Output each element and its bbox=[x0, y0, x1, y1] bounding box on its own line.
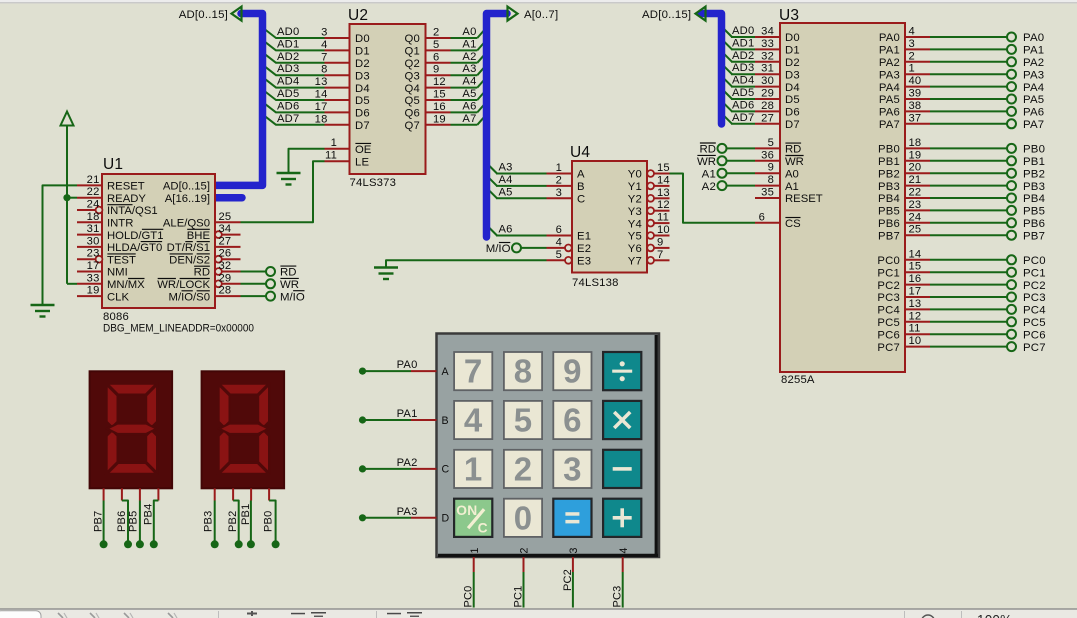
U3 pin 30 D4 bbox=[755, 75, 800, 94]
wire A2 terminal to U3 bbox=[727, 185, 756, 187]
U4 pin 12 Y3 bbox=[628, 199, 670, 218]
svg-text:18: 18 bbox=[87, 211, 100, 223]
net label AD5 (left of U3) bbox=[732, 87, 754, 99]
net label PC3 bbox=[612, 586, 624, 608]
svg-text:18: 18 bbox=[909, 137, 922, 149]
svg-text:D0: D0 bbox=[785, 32, 800, 44]
svg-text:33: 33 bbox=[761, 38, 774, 50]
designator U4 bbox=[570, 144, 590, 161]
svg-text:13: 13 bbox=[315, 76, 328, 88]
svg-text:16: 16 bbox=[909, 273, 922, 285]
U2 pin 17 D6 bbox=[315, 101, 370, 120]
wire+terminal PC7 bbox=[930, 342, 1046, 354]
svg-text:PC0: PC0 bbox=[463, 586, 475, 608]
wire U1.RESET to ground bbox=[43, 185, 78, 304]
U3 pin 19 PB1 bbox=[878, 149, 930, 168]
svg-text:9: 9 bbox=[768, 162, 774, 174]
svg-text:PB1: PB1 bbox=[878, 156, 900, 168]
svg-text:LE: LE bbox=[355, 156, 369, 168]
keypad key 4 bbox=[454, 401, 492, 439]
svg-text:17: 17 bbox=[87, 260, 100, 272]
U3 pin 18 PB0 bbox=[878, 137, 930, 156]
svg-text:AD[0..15]: AD[0..15] bbox=[642, 9, 691, 21]
wire AD5 bus entry + net to U2.D5 bbox=[263, 90, 325, 101]
svg-text:8: 8 bbox=[321, 64, 327, 76]
U1 pin 22 READY bbox=[77, 186, 146, 205]
svg-text:PA7: PA7 bbox=[1023, 119, 1044, 131]
wire+terminal PA2 bbox=[930, 57, 1044, 69]
svg-text:PC4: PC4 bbox=[877, 305, 900, 317]
svg-text:6: 6 bbox=[433, 51, 439, 63]
svg-text:NMI: NMI bbox=[107, 267, 128, 279]
U1 pin 25 ALE/QS0 bbox=[163, 211, 241, 230]
svg-text:2: 2 bbox=[556, 174, 562, 186]
wire AD2 bus entry + net to U3.D2 bbox=[722, 51, 756, 62]
U4 pin 14 Y1 bbox=[628, 174, 670, 193]
net label PA0 bbox=[397, 359, 418, 371]
net label PA3 bbox=[397, 506, 418, 518]
svg-text:6: 6 bbox=[556, 224, 562, 236]
net label AD[0..15] top-left bbox=[179, 9, 228, 21]
svg-text:26: 26 bbox=[219, 248, 232, 260]
svg-text:PC0: PC0 bbox=[877, 255, 900, 267]
keypad key 0 bbox=[504, 499, 542, 537]
svg-text:RESET: RESET bbox=[785, 193, 823, 205]
keypad key 8 bbox=[504, 352, 542, 390]
wire+terminal PC2 bbox=[930, 280, 1046, 292]
U1 pin 28 M/IO/S0 bbox=[169, 285, 241, 304]
svg-text:A2: A2 bbox=[702, 181, 716, 193]
svg-text:E1: E1 bbox=[577, 231, 591, 243]
keypad column label 3 bbox=[568, 548, 580, 554]
svg-text:D1: D1 bbox=[785, 45, 800, 57]
svg-text:CLK: CLK bbox=[107, 291, 129, 303]
svg-text:AD4: AD4 bbox=[277, 76, 299, 88]
wire AD5 bus entry + net to U3.D5 bbox=[722, 89, 756, 100]
svg-text:PA4: PA4 bbox=[1023, 82, 1044, 94]
wire AD4 bus entry + net to U3.D4 bbox=[722, 76, 756, 87]
svg-text:4: 4 bbox=[618, 548, 630, 554]
svg-text:Q6: Q6 bbox=[405, 108, 420, 120]
svg-text:PC6: PC6 bbox=[877, 329, 900, 341]
U3 pin 36 WR bbox=[755, 149, 804, 168]
U2 pin 15 Q5 bbox=[405, 89, 451, 108]
svg-text:PA7: PA7 bbox=[879, 119, 900, 131]
net label A3 (left of U4) bbox=[499, 162, 513, 174]
svg-text:Q4: Q4 bbox=[405, 83, 420, 95]
designator U2 bbox=[348, 7, 368, 24]
net label AD2 (left of U3) bbox=[732, 50, 754, 62]
wire PB1 from DS2 bbox=[240, 488, 255, 548]
svg-text:AD6: AD6 bbox=[732, 99, 754, 111]
svg-text:Q7: Q7 bbox=[405, 120, 420, 132]
keypad key 5 bbox=[504, 401, 542, 439]
bus AD[0..15] (U1 to U2) with left arrow bbox=[216, 7, 263, 186]
wire+terminal PB7 bbox=[930, 230, 1045, 242]
U3 pin 34 D0 bbox=[755, 26, 800, 45]
value 8255A bbox=[781, 374, 815, 386]
wire PB6 from DS1 bbox=[116, 488, 132, 548]
svg-text:9: 9 bbox=[563, 353, 582, 390]
svg-text:5: 5 bbox=[556, 249, 562, 261]
U1 pin A[16..19] bbox=[165, 193, 210, 205]
bus A[0..7] (U2 to U4) with right arrow bbox=[487, 7, 518, 237]
svg-text:PB4: PB4 bbox=[878, 193, 900, 205]
keypad key 9 bbox=[553, 352, 591, 390]
svg-text:PA6: PA6 bbox=[1023, 107, 1044, 119]
wire PC0 keypad column 1 bbox=[473, 557, 475, 608]
net label AD1 (left of U2) bbox=[277, 38, 299, 50]
wire AD4 bus entry + net to U2.D4 bbox=[263, 77, 325, 88]
U2 pin 13 D4 bbox=[315, 76, 370, 95]
net label AD4 (left of U2) bbox=[277, 76, 299, 88]
svg-text:PA2: PA2 bbox=[397, 457, 418, 469]
svg-text:PC4: PC4 bbox=[1023, 305, 1046, 317]
U3 pin 14 PC0 bbox=[877, 248, 930, 267]
svg-text:AD6: AD6 bbox=[277, 100, 299, 112]
net label AD3 (left of U3) bbox=[732, 62, 754, 74]
svg-text:A1: A1 bbox=[785, 181, 799, 193]
net label AD1 (left of U3) bbox=[732, 37, 754, 49]
svg-text:7: 7 bbox=[657, 249, 663, 261]
wire RD terminal to U3 bbox=[727, 147, 756, 149]
keypad row label C bbox=[442, 464, 450, 476]
svg-text:AD[0..15]: AD[0..15] bbox=[163, 181, 210, 193]
svg-text:24: 24 bbox=[87, 199, 100, 211]
wire AD3 bus entry + net to U3.D3 bbox=[722, 64, 756, 74]
wire AD6 bus entry + net to U3.D6 bbox=[722, 101, 756, 112]
svg-text:AD7: AD7 bbox=[277, 113, 299, 125]
svg-text:3: 3 bbox=[556, 187, 562, 199]
svg-text:32: 32 bbox=[761, 50, 774, 62]
U3 pin 16 PC2 bbox=[877, 273, 930, 292]
net label AD7 (left of U3) bbox=[732, 112, 754, 124]
svg-text:PB3: PB3 bbox=[878, 181, 900, 193]
svg-text:A[0..7]: A[0..7] bbox=[524, 9, 558, 21]
svg-text:14: 14 bbox=[315, 89, 328, 101]
svg-text:25: 25 bbox=[219, 211, 232, 223]
svg-text:Q3: Q3 bbox=[405, 70, 420, 82]
svg-text:0: 0 bbox=[514, 499, 533, 536]
net label A[0..7] bbox=[524, 9, 558, 21]
keypad KP1 body bbox=[437, 334, 660, 558]
svg-text:READY: READY bbox=[107, 193, 146, 205]
wire AD1 bus entry + net to U3.D1 bbox=[722, 39, 756, 50]
U2 pin 1 OE bbox=[325, 137, 372, 156]
U3 pin 21 PB3 bbox=[878, 174, 930, 193]
svg-text:31: 31 bbox=[761, 63, 774, 75]
wire+terminal PA6 bbox=[930, 107, 1044, 119]
7-segment display DS1 body bbox=[90, 371, 173, 488]
value 74LS373 bbox=[350, 177, 397, 189]
svg-text:34: 34 bbox=[219, 223, 232, 235]
wire+terminal PA0 bbox=[930, 32, 1044, 44]
U2 pin 4 D1 bbox=[321, 39, 370, 58]
wire AD0 bus entry + net to U2.D0 bbox=[263, 28, 325, 39]
svg-text:4: 4 bbox=[556, 236, 562, 248]
U2 pin 18 D7 bbox=[315, 113, 370, 132]
svg-text:C: C bbox=[442, 464, 450, 476]
svg-text:PC6: PC6 bbox=[1023, 329, 1046, 341]
svg-text:7: 7 bbox=[321, 51, 327, 63]
svg-text:D2: D2 bbox=[355, 58, 370, 70]
svg-text:PA2: PA2 bbox=[1023, 57, 1044, 69]
svg-text:D0: D0 bbox=[355, 33, 370, 45]
U4 pin 5 E3 bbox=[547, 249, 592, 268]
wire PA3 to keypad row D bbox=[359, 514, 437, 521]
svg-text:PA1: PA1 bbox=[879, 45, 900, 57]
svg-text:8: 8 bbox=[768, 174, 774, 186]
svg-text:74LS373: 74LS373 bbox=[350, 177, 397, 189]
wire PB5 from DS1 bbox=[128, 488, 144, 548]
keypad key equals bbox=[553, 499, 591, 537]
wire+terminal PC1 bbox=[930, 267, 1046, 279]
wire PB2 from DS2 bbox=[227, 488, 243, 548]
net label A5 (right of U2) bbox=[462, 88, 476, 100]
wire AD1 bus entry + net to U2.D1 bbox=[263, 40, 325, 51]
U4 pin 7 Y7 bbox=[628, 249, 670, 268]
svg-text:11: 11 bbox=[909, 323, 921, 335]
wire AD7 bus entry + net to U2.D7 bbox=[263, 114, 325, 125]
U4 pin 6 E1 bbox=[547, 224, 592, 243]
svg-text:PB6: PB6 bbox=[1023, 218, 1045, 230]
wire+terminal PA7 bbox=[930, 119, 1044, 131]
U3 pin 27 D7 bbox=[755, 112, 800, 131]
wire PB0 from DS2 bbox=[263, 488, 280, 548]
svg-text:A3: A3 bbox=[462, 63, 476, 75]
svg-text:14: 14 bbox=[657, 174, 670, 186]
U1 pin 19 CLK bbox=[77, 285, 129, 304]
keypad key 1 bbox=[454, 450, 492, 488]
svg-text:B: B bbox=[577, 181, 585, 193]
svg-text:A2: A2 bbox=[462, 51, 476, 63]
net label AD2 (left of U2) bbox=[277, 51, 299, 63]
svg-text:CS: CS bbox=[785, 218, 801, 230]
svg-text:Y7: Y7 bbox=[628, 256, 642, 268]
keypad column label 4 bbox=[618, 548, 630, 554]
svg-text:Q5: Q5 bbox=[405, 95, 420, 107]
svg-text:U1: U1 bbox=[103, 156, 123, 173]
svg-text:18: 18 bbox=[315, 113, 328, 125]
U4 pin 10 Y5 bbox=[628, 224, 670, 243]
svg-text:D3: D3 bbox=[355, 70, 370, 82]
svg-text:PC2: PC2 bbox=[1023, 280, 1046, 292]
svg-text:74LS138: 74LS138 bbox=[572, 277, 619, 289]
wire+terminal PA3 bbox=[930, 69, 1044, 81]
svg-text:A4: A4 bbox=[499, 174, 513, 186]
U4 pin 11 Y4 bbox=[628, 212, 670, 231]
svg-text:A5: A5 bbox=[462, 88, 476, 100]
U1 pin 31 HOLD/GT1 bbox=[77, 223, 164, 242]
svg-text:ON: ON bbox=[456, 503, 477, 518]
keypad key multiply bbox=[603, 401, 641, 439]
U3 pin 3 PA1 bbox=[879, 38, 930, 57]
wire AD2 bus entry + net to U2.D2 bbox=[263, 52, 325, 63]
svg-text:AD[0..15]: AD[0..15] bbox=[179, 9, 228, 21]
svg-text:40: 40 bbox=[909, 75, 922, 87]
svg-text:WR/LOCK: WR/LOCK bbox=[157, 279, 210, 291]
svg-text:19: 19 bbox=[909, 149, 922, 161]
svg-text:Y4: Y4 bbox=[628, 218, 642, 230]
svg-text:ALE/QS0: ALE/QS0 bbox=[163, 218, 210, 230]
svg-text:A: A bbox=[577, 169, 585, 181]
keypad key 3 bbox=[553, 450, 591, 488]
svg-text:Y2: Y2 bbox=[628, 194, 642, 206]
svg-text:PA0: PA0 bbox=[1023, 32, 1044, 44]
svg-text:3: 3 bbox=[568, 548, 580, 554]
U1 pin 27 DT/R/S1 bbox=[167, 235, 241, 254]
svg-text:A0: A0 bbox=[785, 168, 799, 180]
U4 pin 2 B bbox=[547, 174, 585, 193]
svg-text:AD1: AD1 bbox=[732, 37, 754, 49]
svg-text:PB4: PB4 bbox=[143, 504, 155, 525]
svg-text:Q1: Q1 bbox=[405, 46, 420, 58]
net label AD6 (left of U2) bbox=[277, 100, 299, 112]
svg-text:39: 39 bbox=[909, 88, 922, 100]
wire+terminal PC0 bbox=[930, 255, 1046, 267]
U4 pin 15 Y0 bbox=[628, 162, 670, 181]
svg-text:5: 5 bbox=[514, 402, 533, 439]
svg-text:2: 2 bbox=[433, 27, 439, 39]
svg-text:AD2: AD2 bbox=[732, 50, 754, 62]
svg-text:PB0: PB0 bbox=[263, 511, 275, 532]
svg-text:D7: D7 bbox=[355, 120, 370, 132]
U2 pin 2 Q0 bbox=[405, 27, 451, 46]
svg-text:13: 13 bbox=[909, 298, 922, 310]
U3 pin 4 PA0 bbox=[879, 26, 930, 45]
U3 pin 22 PB4 bbox=[878, 187, 930, 206]
ground (U1 RESET) bbox=[31, 305, 55, 317]
U4 pin 1 A bbox=[547, 162, 586, 181]
svg-text:3: 3 bbox=[909, 38, 915, 50]
svg-text:38: 38 bbox=[909, 100, 922, 112]
U3 pin 24 PB6 bbox=[878, 211, 930, 230]
svg-text:D4: D4 bbox=[355, 83, 370, 95]
svg-text:AD0: AD0 bbox=[732, 25, 754, 37]
svg-text:PB6: PB6 bbox=[878, 218, 900, 230]
svg-text:D2: D2 bbox=[785, 57, 800, 69]
svg-text:32: 32 bbox=[219, 260, 232, 272]
svg-text:PA1: PA1 bbox=[397, 408, 418, 420]
net label A2 (right of U2) bbox=[462, 51, 476, 63]
svg-text:PC5: PC5 bbox=[877, 317, 900, 329]
U2 pin 7 D2 bbox=[321, 51, 370, 70]
svg-text:PB7: PB7 bbox=[1023, 230, 1045, 242]
ppi U3 8255A body bbox=[780, 23, 905, 372]
svg-text:PC2: PC2 bbox=[877, 280, 900, 292]
U4 pin 13 Y2 bbox=[628, 187, 670, 206]
U3 pin 5 RD bbox=[755, 137, 801, 156]
wire+terminal PA1 bbox=[930, 45, 1044, 57]
wire U1.RD to terminal bbox=[241, 271, 267, 273]
svg-text:PC1: PC1 bbox=[1023, 267, 1046, 279]
svg-text:1: 1 bbox=[331, 137, 337, 149]
bus AD[0..15] (to U3) with left arrow bbox=[696, 7, 722, 124]
svg-text:12: 12 bbox=[657, 199, 670, 211]
svg-text:AD5: AD5 bbox=[732, 87, 754, 99]
svg-text:PB3: PB3 bbox=[202, 511, 214, 532]
wire VCC to U1.READY bbox=[67, 197, 77, 199]
svg-text:5: 5 bbox=[768, 137, 774, 149]
svg-text:16: 16 bbox=[433, 101, 446, 113]
svg-text:RESET: RESET bbox=[107, 181, 145, 193]
keypad key ON/C bbox=[454, 499, 492, 537]
terminal M/IO (U4 E2) bbox=[486, 243, 521, 256]
svg-text:21: 21 bbox=[87, 174, 100, 186]
net label A0 (right of U2) bbox=[462, 26, 476, 38]
svg-text:PB5: PB5 bbox=[128, 511, 140, 532]
U3 pin 20 PB2 bbox=[878, 162, 930, 181]
value DBG_MEM_LINEADDR=0x00000 bbox=[103, 323, 254, 335]
svg-text:E2: E2 bbox=[577, 243, 591, 255]
svg-text:28: 28 bbox=[219, 285, 232, 297]
svg-text:15: 15 bbox=[433, 89, 446, 101]
U3 pin 31 D3 bbox=[755, 63, 800, 82]
U2 pin 6 Q2 bbox=[405, 51, 451, 70]
svg-text:A6: A6 bbox=[499, 224, 513, 236]
svg-text:PA3: PA3 bbox=[397, 506, 418, 518]
svg-text:BHE: BHE bbox=[187, 230, 211, 242]
svg-text:PB5: PB5 bbox=[1023, 206, 1045, 218]
svg-text:PB0: PB0 bbox=[1023, 144, 1045, 156]
svg-text:PA5: PA5 bbox=[1023, 94, 1044, 106]
ground (U4 E3) bbox=[374, 268, 398, 280]
svg-text:D6: D6 bbox=[785, 107, 800, 119]
wire+terminal PB2 bbox=[930, 168, 1045, 180]
value 8086 bbox=[103, 311, 129, 323]
wire A4 bus entry to U4 bbox=[487, 175, 547, 186]
U1 pin AD[0..15] bbox=[163, 181, 210, 193]
svg-text:100%: 100% bbox=[977, 613, 1012, 618]
svg-text:10: 10 bbox=[657, 224, 670, 236]
U4 pin 3 C bbox=[547, 187, 586, 206]
svg-text:RD: RD bbox=[700, 144, 716, 156]
svg-text:36: 36 bbox=[761, 149, 774, 161]
net label AD5 (left of U2) bbox=[277, 88, 299, 100]
svg-text:D3: D3 bbox=[785, 69, 800, 81]
svg-text:29: 29 bbox=[761, 88, 774, 100]
svg-text:AD7: AD7 bbox=[732, 112, 754, 124]
wire A2 from U2.Q2 + bus entry bbox=[451, 52, 487, 63]
wire PA2 to keypad row C bbox=[359, 465, 437, 472]
svg-text:2: 2 bbox=[519, 548, 531, 554]
svg-text:U2: U2 bbox=[348, 7, 368, 24]
wire PB4 from DS1 bbox=[143, 488, 159, 548]
wire+terminal PB4 bbox=[930, 193, 1045, 205]
svg-text:6: 6 bbox=[563, 402, 582, 439]
U1 pin 17 NMI bbox=[77, 260, 128, 279]
svg-text:4: 4 bbox=[909, 26, 915, 38]
net label AD7 (left of U2) bbox=[277, 113, 299, 125]
keypad column label 1 bbox=[469, 548, 481, 554]
wire+terminal PB3 bbox=[930, 181, 1045, 193]
wire A6 bus entry to U4 bbox=[487, 225, 547, 236]
svg-text:27: 27 bbox=[761, 112, 774, 124]
svg-text:23: 23 bbox=[87, 248, 100, 260]
svg-text:AD3: AD3 bbox=[277, 63, 299, 75]
svg-text:33: 33 bbox=[87, 272, 100, 284]
svg-text:9: 9 bbox=[433, 64, 439, 76]
U3 pin 6 CS bbox=[755, 211, 801, 230]
svg-text:PB4: PB4 bbox=[1023, 193, 1045, 205]
svg-text:PC1: PC1 bbox=[877, 267, 900, 279]
U4 pin 9 Y6 bbox=[628, 236, 670, 255]
wire AD0 bus entry + net to U3.D0 bbox=[722, 27, 756, 38]
svg-text:37: 37 bbox=[909, 112, 922, 124]
svg-text:MN/MX: MN/MX bbox=[107, 279, 145, 291]
top window edge bbox=[0, 0, 1077, 3]
U1 pin 23 TEST bbox=[77, 248, 136, 267]
